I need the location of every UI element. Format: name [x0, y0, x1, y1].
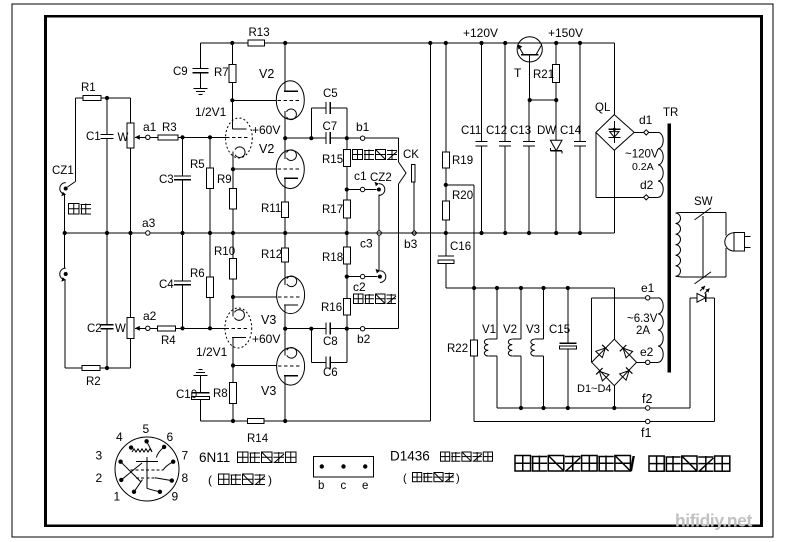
- wire R1 left down to CZ1: [74, 98, 76, 182]
- wire C5 branch down-right: [346, 108, 348, 138]
- svg-text:(: (: [403, 473, 407, 485]
- svg-text:C2: C2: [87, 323, 102, 335]
- capacitor C16: [438, 255, 454, 257]
- wire plug bottom lead: [725, 248, 727, 277]
- svg-text:2: 2: [96, 471, 103, 485]
- wire C6 branch up-right: [346, 329, 348, 363]
- junction R15/R17 c1 node: [345, 187, 349, 191]
- wire pot W upper bottom to 0V: [130, 148, 132, 233]
- wire C14 top lead: [579, 43, 581, 141]
- junction C1/C2 on rail: [105, 231, 109, 235]
- wire R17 to 0V rail: [346, 218, 348, 233]
- wire R12 to V3a cathode: [284, 262, 286, 285]
- junction C14 bottom: [578, 231, 582, 235]
- tube V3 upper: [277, 276, 305, 313]
- wire d2 to winding: [649, 196, 658, 198]
- junction V1 heater top: [495, 286, 499, 290]
- wire C6 branch down-left: [310, 329, 312, 363]
- wire CZ2 shell lower: [378, 235, 380, 271]
- wire R21 to base node: [555, 82, 557, 100]
- diode D1 (top-left edge): [596, 348, 606, 358]
- wire C12 top lead: [504, 43, 506, 141]
- triode V1a (upper half 6N11): [226, 118, 253, 158]
- wire e1 line: [592, 297, 646, 299]
- svg-text:W: W: [118, 132, 129, 144]
- junction V2 heater bottom: [519, 406, 523, 410]
- potentiometer W upper: [127, 123, 134, 148]
- bridge rectifier D1-D4: [592, 339, 637, 386]
- svg-text:8: 8: [182, 471, 189, 485]
- wire C16 corner to heater rail: [446, 287, 474, 289]
- wire +B feeder x=430: [429, 43, 431, 421]
- heater V3 coil: [543, 288, 545, 339]
- diode D3 (bottom-left edge): [599, 371, 609, 381]
- svg-text:R6: R6: [190, 268, 205, 280]
- junction R8 bottom: [231, 419, 235, 423]
- svg-text:c: c: [341, 480, 347, 492]
- wire cathode lead into V1b: [232, 297, 234, 317]
- wire R22 top lead: [473, 288, 475, 340]
- svg-text:f1: f1: [641, 426, 651, 440]
- wire +B rail drop to QL bridge: [613, 43, 615, 115]
- wire QL left AC to d2: [596, 196, 644, 198]
- node a3: [146, 231, 150, 235]
- wire R18 to c2: [346, 264, 348, 277]
- wire f1 rail: [474, 421, 714, 423]
- svg-text:9: 9: [172, 490, 179, 504]
- junction R20/C16 on rail: [444, 231, 448, 235]
- junction C5 branch right / R15 top: [345, 136, 349, 140]
- wire R17: [346, 190, 348, 201]
- wire LED branch down: [713, 298, 715, 422]
- svg-text:e2: e2: [640, 345, 654, 359]
- wire R19 to R20: [445, 168, 447, 201]
- wire CZ2 shell upper: [378, 195, 380, 231]
- svg-text:D1436: D1436: [390, 449, 430, 464]
- resistor R5: [207, 168, 214, 188]
- switch SW blade bottom: [695, 272, 712, 284]
- junction line-out midpoint node: [283, 327, 287, 331]
- jack CK tip spring: [399, 162, 407, 184]
- node b3: [412, 230, 417, 235]
- resistor R11: [282, 202, 289, 217]
- bridge rectifier QL: [596, 115, 634, 151]
- wire C7 to CK: [330, 137, 398, 139]
- node c3: [377, 231, 381, 235]
- resistor R3: [158, 135, 178, 140]
- junction R7 top on rail: [230, 41, 234, 45]
- wire primary bottom: [681, 276, 726, 278]
- wire b1 to R15: [346, 138, 348, 149]
- wire DW bottom lead: [555, 151, 557, 233]
- wire C15 bottom lead: [567, 349, 569, 408]
- svg-text:1/2V1: 1/2V1: [196, 345, 228, 359]
- jack CZ1 upper pin: [64, 187, 68, 191]
- wire C8 to b2 corner: [330, 328, 398, 330]
- svg-text:T: T: [514, 66, 522, 80]
- wire V1a cathode to V2b grid: [233, 168, 277, 170]
- svg-text:0.2A: 0.2A: [632, 161, 654, 173]
- D1436 pin dot e: [363, 464, 367, 468]
- wire f2 rail: [497, 407, 645, 409]
- wire bottom rail right: [264, 420, 430, 422]
- svg-text:V2: V2: [259, 67, 274, 81]
- wire c2 to R16: [346, 277, 348, 299]
- wire R5 lower lead: [209, 189, 211, 234]
- wire V3a plate to midpoint to V3b cathode: [284, 305, 286, 356]
- wire c1 line: [347, 189, 377, 191]
- wire C1 top lead: [106, 98, 108, 134]
- resistor R1: [83, 96, 101, 101]
- wire 0V to R18: [346, 233, 348, 247]
- wire V1a plate to V2a grid: [232, 99, 276, 101]
- svg-text:e1: e1: [641, 281, 655, 295]
- svg-text:R2: R2: [86, 376, 101, 388]
- svg-text:R20: R20: [452, 190, 473, 202]
- junction C11 bottom: [479, 231, 483, 235]
- wire a1 to R3: [150, 136, 158, 138]
- svg-text:~6.3V: ~6.3V: [627, 313, 658, 325]
- svg-text:d1: d1: [639, 113, 653, 127]
- junction V1b plate node: [231, 363, 235, 367]
- capacitor C7: [325, 132, 327, 144]
- transformer primary winding: [676, 213, 681, 276]
- svg-text:R14: R14: [247, 433, 269, 445]
- pot W wiper arrow: [135, 136, 146, 138]
- wire plug top lead: [725, 212, 727, 235]
- resistor R19: [442, 152, 449, 168]
- wire LED branch up: [689, 298, 691, 408]
- wire e2 to winding: [650, 361, 658, 363]
- transformer 120V secondary winding: [658, 132, 663, 197]
- svg-text:C13: C13: [510, 125, 531, 137]
- svg-text:C9: C9: [173, 66, 188, 78]
- svg-text:C4: C4: [159, 279, 174, 291]
- capacitor C10: [191, 392, 209, 394]
- svg-text:a1: a1: [143, 120, 157, 134]
- node c2: [360, 274, 364, 278]
- node e1: [646, 296, 650, 300]
- svg-text:R1: R1: [81, 82, 96, 94]
- wire plate node to R8: [232, 366, 234, 383]
- svg-text:R11: R11: [261, 203, 281, 215]
- wire midpoint to C7: [285, 137, 326, 139]
- junction CZ1 shell on rail: [63, 231, 67, 235]
- wire T base down: [529, 62, 531, 100]
- wire rail to R19: [445, 43, 447, 152]
- diode D4 (bottom-right edge): [620, 371, 630, 381]
- ground below C9: [193, 88, 207, 90]
- svg-text:C7: C7: [323, 121, 338, 133]
- wire R20 to C16: [445, 220, 447, 256]
- wire C10 to bottom rail: [199, 400, 201, 421]
- svg-text:+60V: +60V: [252, 123, 280, 137]
- svg-text:b3: b3: [404, 237, 418, 251]
- wire rail to R21: [555, 43, 557, 65]
- wire d1 to winding: [649, 131, 658, 133]
- heater V1 coil: [496, 288, 498, 339]
- wire c2 line: [347, 276, 378, 278]
- svg-text:d2: d2: [640, 178, 654, 192]
- node d2: [644, 195, 649, 200]
- wire R7 to V1a plate: [231, 82, 233, 129]
- junction C4 bottom: [180, 326, 184, 330]
- capacitor C4: [174, 280, 191, 282]
- wire R6 upper lead: [209, 233, 211, 277]
- heater V2 coil: [520, 288, 522, 339]
- wire C14 bottom lead: [579, 146, 581, 233]
- junction V1a plate node: [230, 98, 234, 102]
- svg-text:C16: C16: [450, 241, 471, 253]
- wire gnd to C10: [199, 376, 201, 393]
- tube V3 lower: [277, 348, 305, 385]
- capacitor C5: [325, 102, 327, 114]
- switch SW gang link: [702, 216, 704, 279]
- svg-text:DW: DW: [537, 125, 556, 137]
- capacitor C8: [325, 323, 327, 335]
- D1436 pin dot c: [341, 464, 345, 468]
- resistor R17: [343, 200, 350, 218]
- wire R1 left lead: [75, 97, 83, 99]
- junction C12 on rail: [503, 41, 507, 45]
- wire LED right lead: [706, 297, 715, 299]
- wire C2 bottom lead: [106, 329, 108, 368]
- wire D1-D4 bottom to f2: [613, 386, 615, 408]
- svg-text:C12: C12: [486, 125, 507, 137]
- svg-text:R17: R17: [322, 204, 343, 216]
- svg-text:V2: V2: [503, 324, 517, 336]
- svg-text:CZ2: CZ2: [370, 172, 392, 184]
- wire CZ1 shell link: [64, 195, 66, 269]
- svg-text:f2: f2: [642, 392, 652, 406]
- junction V1a cathode node: [231, 167, 235, 171]
- wire R2 line: [100, 367, 131, 369]
- wire 0V rail to R10: [232, 233, 234, 259]
- wire heater rail: [446, 287, 615, 289]
- resistor R14: [248, 418, 265, 423]
- transistor T pass regulator: [517, 37, 542, 62]
- mains plug: [725, 233, 734, 251]
- svg-text:R13: R13: [249, 27, 270, 39]
- wire base to R21 bottom: [530, 99, 557, 101]
- wire C6 right lead: [330, 361, 346, 363]
- svg-text:R22: R22: [447, 343, 468, 355]
- wire e1 drop to bridge: [591, 298, 593, 363]
- resistor R2: [82, 365, 100, 370]
- resistor R22: [471, 340, 478, 356]
- capacitor C11: [476, 141, 488, 143]
- capacitor C15: [559, 342, 576, 344]
- potentiometer W lower: [127, 318, 134, 339]
- wire R16 to b2: [346, 315, 348, 329]
- wire V2b plate to R11: [284, 178, 286, 202]
- resistor R16: [343, 299, 350, 316]
- junction R5 top: [208, 135, 212, 139]
- svg-text:R3: R3: [162, 122, 177, 134]
- junction headphone midpoint b1 node: [283, 136, 287, 140]
- junction C13 bottom: [527, 231, 531, 235]
- svg-text:a3: a3: [142, 216, 156, 230]
- junction C3 top: [180, 135, 184, 139]
- resistor R7: [229, 65, 236, 83]
- junction V2 plate on rail: [283, 41, 287, 45]
- capacitor C14: [574, 141, 586, 143]
- junction V3 heater bottom: [541, 406, 545, 410]
- wire f2 to LED branch: [650, 407, 690, 409]
- node f2: [646, 406, 650, 410]
- diode D2 (top-right edge): [623, 348, 633, 358]
- wire C5 branch up-left: [310, 108, 312, 138]
- wire divider branch down: [473, 185, 475, 288]
- svg-text:CZ1: CZ1: [52, 165, 74, 177]
- wire heater rail to D1-D4: [613, 288, 615, 339]
- wire V2a cathode to midpoint to V2b cathode: [284, 111, 286, 159]
- wire divider branch right: [446, 184, 474, 186]
- capacitor C3: [174, 175, 191, 177]
- wire R8 to bottom rail: [232, 403, 234, 421]
- wire R3 to V1a grid: [178, 136, 227, 138]
- LED indicator: [697, 293, 706, 302]
- wire bottom rail left: [200, 420, 247, 422]
- wire C5 right lead: [330, 107, 346, 109]
- wire e2 line: [637, 361, 646, 363]
- junction C11 on rail: [479, 41, 483, 45]
- wire b1 to CK tip: [398, 138, 400, 162]
- svg-text:6: 6: [167, 430, 174, 444]
- wire C9 top: [199, 43, 201, 68]
- wire primary bottom stub: [676, 275, 682, 278]
- svg-text:V3: V3: [261, 313, 276, 327]
- svg-text:D1~D4: D1~D4: [577, 383, 612, 395]
- jack CZ2 lower pin: [378, 275, 382, 279]
- wire V1b plate down: [232, 338, 234, 366]
- node d1: [644, 130, 649, 135]
- resistor R4: [158, 326, 176, 331]
- resistor R20: [442, 201, 449, 220]
- wire V1b plate to V3b grid: [233, 365, 277, 367]
- wire midpoint2 to C8: [285, 328, 326, 330]
- wire R5 upper lead: [209, 137, 211, 168]
- svg-text:c1: c1: [354, 169, 367, 183]
- svg-text:C6: C6: [323, 367, 338, 379]
- svg-text:b2: b2: [357, 332, 371, 346]
- wire cathode to R9: [232, 169, 234, 188]
- svg-text:V1: V1: [482, 324, 496, 336]
- junction R9/R10 on rail: [231, 231, 235, 235]
- svg-text:R15: R15: [322, 154, 343, 166]
- wire base node to C13: [528, 100, 530, 141]
- transformer 6.3V winding: [658, 298, 663, 363]
- junction C12 bottom: [503, 231, 507, 235]
- node a2: [146, 326, 150, 330]
- wire C5 left lead: [311, 107, 326, 109]
- junction divider node: [444, 183, 448, 187]
- resistor R9: [230, 189, 237, 209]
- svg-text:R16: R16: [321, 302, 342, 314]
- wire R9 to 0V rail: [232, 209, 234, 233]
- D1436 pin dot b: [320, 464, 324, 468]
- wire CK sleeve to b3: [413, 182, 415, 230]
- junction x430 feeder on rail: [428, 41, 432, 45]
- svg-text:C5: C5: [323, 88, 338, 100]
- wire R1 right to pot top: [101, 97, 131, 99]
- junction C15 top: [566, 286, 570, 290]
- wire primary top: [681, 211, 726, 213]
- wire pot W lower bottom: [130, 339, 132, 368]
- wire primary top stub: [676, 211, 682, 214]
- wire R4 to V1b grid: [176, 327, 227, 329]
- resistor R13: [248, 40, 264, 46]
- svg-text:R4: R4: [161, 335, 176, 347]
- wire bend into CZ1 pin: [68, 182, 76, 188]
- svg-text:b: b: [318, 480, 324, 492]
- wire C9 to ground: [199, 73, 201, 89]
- resistor R21: [553, 65, 560, 83]
- capacitor C2: [101, 324, 114, 326]
- wire V1a cathode down: [232, 152, 234, 170]
- svg-text:R10: R10: [214, 246, 235, 258]
- svg-text:1: 1: [114, 490, 121, 504]
- wire C2 top 0V lead: [106, 233, 108, 324]
- junction pot W on rail: [128, 231, 132, 235]
- tube V2 lower: [276, 150, 304, 189]
- svg-text:C10: C10: [176, 389, 197, 401]
- junction C15 bottom: [566, 406, 570, 410]
- svg-text:c3: c3: [360, 237, 373, 251]
- wire C16 down: [445, 263, 447, 288]
- svg-text:b1: b1: [356, 120, 370, 134]
- svg-text:R7: R7: [214, 67, 229, 79]
- tube V2 upper: [276, 81, 304, 120]
- svg-text:QL: QL: [595, 102, 611, 114]
- zener diode DW: [550, 140, 562, 151]
- junction c2 node: [345, 275, 349, 279]
- wire C6 left lead: [311, 361, 326, 363]
- wire C15 top lead: [567, 288, 569, 343]
- node b1: [360, 136, 364, 140]
- svg-text:V3: V3: [261, 384, 276, 398]
- wire LED left lead: [690, 297, 697, 299]
- junction V3 heater top: [541, 286, 545, 290]
- capacitor C13: [523, 141, 535, 143]
- resistor R8: [230, 383, 237, 404]
- junction DW bottom: [554, 231, 558, 235]
- wire rail to R7: [231, 43, 233, 65]
- wire 0V rail to R12: [284, 233, 286, 248]
- D1436 pin box: [314, 456, 374, 477]
- wire R22 to f1 rail: [473, 356, 475, 422]
- wire C4 upper lead: [182, 233, 184, 281]
- wire a2 to R4: [150, 327, 158, 329]
- svg-text:R5: R5: [190, 159, 205, 171]
- junction C2 bottom: [105, 366, 109, 370]
- resistor R12: [282, 248, 289, 262]
- wire C13 to 0V: [528, 146, 530, 233]
- junction R17/R18 on rail: [345, 231, 349, 235]
- svg-text:7: 7: [182, 449, 189, 463]
- junction C3/C4 on rail: [180, 231, 184, 235]
- svg-text:hifidiy.net: hifidiy.net: [675, 511, 753, 531]
- resistor R6: [207, 277, 214, 297]
- capacitor C1: [101, 133, 114, 135]
- node c1: [360, 187, 364, 191]
- svg-text:C3: C3: [159, 174, 174, 186]
- junction C5 branch left: [309, 136, 313, 140]
- svg-text:(: (: [208, 473, 212, 487]
- svg-text:R12: R12: [261, 249, 282, 261]
- capacitor C6: [325, 356, 327, 368]
- resistor R15: [343, 150, 350, 167]
